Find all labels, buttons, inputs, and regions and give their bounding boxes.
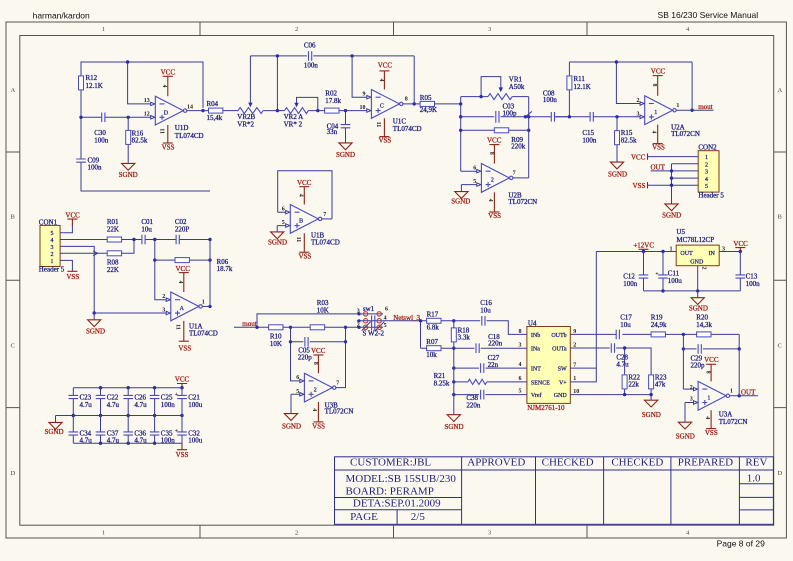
svg-text:2: 2: [295, 530, 298, 537]
svg-text:GND: GND: [554, 393, 568, 399]
svg-text:24,9K: 24,9K: [420, 106, 437, 114]
svg-text:3: 3: [51, 245, 54, 251]
wire U3A output: [730, 395, 758, 397]
junction dot U1C out: [413, 102, 416, 105]
ground SGND U1B: [268, 232, 287, 247]
power port VCC at CON2: [631, 153, 648, 161]
svg-text:2: 2: [51, 252, 54, 258]
svg-text:100n: 100n: [623, 280, 638, 288]
svg-text:100u: 100u: [188, 401, 203, 409]
svg-text:15,4k: 15,4k: [207, 114, 223, 122]
svg-text:12: 12: [144, 112, 150, 118]
svg-text:VSS: VSS: [652, 144, 665, 152]
resistor R22: [622, 373, 640, 394]
wire U2B output feedback: [513, 130, 529, 178]
wire C27 net pin4: [454, 367, 527, 369]
svg-text:10u: 10u: [620, 321, 631, 329]
svg-text:SW: SW: [558, 367, 567, 373]
wire C18 net pin3: [454, 347, 527, 349]
svg-text:2: 2: [162, 294, 165, 300]
wire VR2A to R02: [308, 110, 324, 112]
svg-text:4: 4: [384, 315, 387, 321]
svg-text:VCC: VCC: [704, 356, 719, 364]
svg-text:VSS: VSS: [66, 273, 79, 281]
svg-text:4: 4: [311, 408, 317, 411]
ground SGND U5: [689, 298, 708, 313]
svg-text:4: 4: [704, 416, 710, 419]
svg-text:D: D: [164, 110, 169, 116]
svg-text:14,3k: 14,3k: [696, 321, 712, 329]
svg-text:IN: IN: [708, 251, 715, 257]
wire U1A pin3 from SGND: [94, 313, 166, 320]
svg-text:TL072CN: TL072CN: [325, 408, 354, 416]
svg-text:4.7u: 4.7u: [107, 436, 120, 444]
svg-text:TL072CN: TL072CN: [671, 130, 700, 138]
resistor R16: [126, 117, 148, 163]
resistor R02: [325, 89, 342, 113]
svg-text:5: 5: [519, 389, 522, 395]
svg-text:220k: 220k: [511, 142, 526, 150]
connector CON2: [698, 144, 724, 200]
op-amp U1B: [282, 179, 340, 261]
junction dots CON1 stage: [93, 238, 212, 315]
svg-text:4.7u: 4.7u: [80, 401, 93, 409]
svg-text:3: 3: [705, 170, 708, 176]
svg-text:22k: 22k: [628, 381, 639, 389]
svg-text:6: 6: [519, 376, 522, 382]
svg-text:22K: 22K: [107, 226, 119, 234]
resistor R20: [696, 314, 712, 337]
wire R08 up to R01 node: [122, 240, 134, 254]
power port +12VC: [633, 241, 654, 251]
junction dot C11 bottom: [661, 289, 664, 292]
svg-text:mout: mout: [698, 103, 712, 111]
junction dots U4 right: [623, 333, 741, 398]
svg-text:1.0: 1.0: [747, 473, 761, 485]
svg-text:SGND: SGND: [676, 432, 695, 440]
op-amp U1C: [360, 62, 422, 145]
svg-text:22n: 22n: [488, 361, 499, 369]
svg-text:4: 4: [161, 85, 167, 88]
resistor R05: [420, 94, 437, 114]
svg-text:INT: INT: [531, 367, 541, 373]
svg-text:8.25k: 8.25k: [434, 380, 450, 388]
svg-text:VCC: VCC: [631, 154, 646, 162]
svg-text:1: 1: [102, 26, 105, 33]
wire CON1 pin5 to VCC: [60, 226, 72, 233]
ground SGND below CON2: [662, 204, 681, 220]
wire left bus of VR1 cell: [461, 97, 488, 172]
svg-text:TL074CD: TL074CD: [311, 239, 340, 247]
svg-text:1: 1: [102, 530, 105, 537]
capacitor C05: [298, 337, 313, 362]
svg-text:100n: 100n: [94, 137, 109, 145]
svg-text:VCC: VCC: [65, 211, 80, 219]
svg-text:A: A: [180, 306, 185, 312]
svg-text:+: +: [175, 392, 179, 398]
capacitor C09: [76, 156, 102, 171]
svg-text:+: +: [655, 272, 659, 278]
svg-text:INb: INb: [531, 333, 540, 339]
wire U4 SW row stub: [570, 367, 596, 369]
svg-text:12.1K: 12.1K: [86, 82, 103, 90]
potentiometer VR2A: [284, 97, 318, 128]
svg-text:SGND: SGND: [268, 239, 287, 247]
wire signal line C15: [556, 116, 640, 118]
svg-text:1: 1: [202, 299, 205, 305]
op-amp U2A: [637, 68, 700, 152]
resistor R19: [651, 314, 667, 337]
svg-text:U5: U5: [676, 228, 685, 236]
resistor R12: [79, 74, 103, 90]
svg-text:3: 3: [488, 26, 491, 33]
svg-text:TL072CN: TL072CN: [719, 418, 748, 426]
svg-text:1: 1: [676, 103, 679, 109]
wire left bus U4 down to ground: [453, 348, 455, 415]
wire R02 to U1C pin10: [339, 110, 367, 112]
svg-text:11: 11: [295, 237, 301, 243]
capacitor C28: [611, 343, 629, 368]
wire output column down from C09 line: [209, 240, 211, 307]
wire U1A output: [202, 305, 210, 307]
svg-text:8: 8: [519, 329, 522, 335]
svg-text:3: 3: [690, 396, 693, 402]
capacitor C34: [69, 416, 93, 445]
svg-text:D: D: [11, 470, 16, 477]
capacitor C03: [461, 103, 524, 123]
capacitor C02: [175, 218, 190, 244]
wire node to R06 row and U1A pin2: [155, 240, 210, 300]
wire CON1 pin4 line: [60, 239, 210, 241]
svg-text:SGND: SGND: [336, 151, 355, 159]
wire R05 to node: [435, 103, 461, 105]
power port VCC at CON1: [65, 211, 80, 226]
svg-text:5: 5: [51, 231, 54, 237]
svg-text:SGND: SGND: [86, 327, 105, 335]
wire U1D output: [187, 110, 203, 112]
op-amp U3B: [296, 347, 353, 430]
svg-text:A50k: A50k: [509, 83, 525, 91]
ground SGND below R16: [119, 163, 138, 179]
svg-text:1: 1: [573, 376, 576, 382]
wire U3B output feedback: [336, 387, 346, 389]
wire U3A pin3 to ground: [685, 403, 694, 423]
svg-text:OUT: OUT: [651, 163, 666, 171]
svg-text:CHECKED: CHECKED: [542, 457, 594, 469]
wire U3B pin6: [291, 342, 300, 381]
wire C29 feedback: [683, 334, 739, 389]
svg-text:100p: 100p: [503, 110, 518, 118]
svg-text:TL074CD: TL074CD: [393, 125, 422, 133]
svg-text:6: 6: [282, 207, 285, 213]
svg-text:OUTa: OUTa: [552, 347, 567, 353]
svg-text:SGND: SGND: [119, 171, 138, 179]
svg-text:22K: 22K: [107, 266, 119, 274]
svg-text:100n: 100n: [304, 61, 319, 69]
svg-text:220n: 220n: [488, 340, 503, 348]
svg-text:4.7u: 4.7u: [616, 361, 629, 369]
resistor R10: [269, 325, 283, 348]
capacitor C12: [623, 252, 648, 291]
svg-text:INa: INa: [531, 347, 540, 353]
connector CON1: [39, 219, 65, 274]
svg-text:SGND: SGND: [662, 212, 681, 220]
svg-text:TL074CD: TL074CD: [175, 132, 204, 140]
svg-text:24,9k: 24,9k: [651, 321, 667, 329]
svg-text:U4: U4: [528, 320, 537, 328]
wire U4 V+ to 12V rail: [570, 252, 596, 382]
resistor R09: [461, 128, 529, 151]
regulator U5 MC78L12CP: [670, 228, 726, 266]
ground SGND U4 inputs: [444, 415, 463, 431]
svg-text:VCC: VCC: [487, 136, 502, 144]
capacitor C30: [94, 113, 109, 145]
svg-text:Vref: Vref: [531, 392, 542, 399]
svg-text:3: 3: [637, 111, 640, 117]
svg-text:VR*2: VR*2: [237, 121, 254, 129]
svg-text:14: 14: [187, 104, 193, 110]
svg-text:10: 10: [573, 389, 579, 395]
svg-text:2: 2: [491, 178, 494, 184]
wire U2B pin6: [461, 170, 477, 172]
resistor R04: [203, 100, 238, 122]
svg-text:8: 8: [651, 84, 657, 87]
wire U5 pin3 to VCC: [719, 251, 740, 253]
svg-text:SGND: SGND: [444, 423, 463, 431]
svg-text:220P: 220P: [175, 226, 190, 234]
resistor R06: [175, 258, 233, 273]
svg-text:SGND: SGND: [44, 428, 63, 436]
svg-text:1: 1: [707, 396, 710, 402]
svg-text:100n: 100n: [582, 136, 597, 144]
svg-text:100n: 100n: [161, 401, 176, 409]
capacitor C16: [480, 299, 492, 325]
switch contact slash after C03: [525, 111, 532, 116]
junction dots U2A stage: [568, 60, 694, 118]
svg-text:100n: 100n: [746, 280, 761, 288]
svg-text:D: D: [778, 470, 783, 477]
svg-text:V+: V+: [559, 380, 567, 386]
svg-text:7: 7: [336, 380, 339, 386]
svg-text:REV: REV: [745, 457, 767, 469]
resistor R17: [427, 311, 441, 332]
svg-text:Header 5: Header 5: [39, 266, 65, 274]
ground SGND U3B: [282, 414, 301, 431]
junction dots cap bank: [72, 386, 184, 445]
svg-text:1: 1: [51, 259, 54, 265]
svg-text:1: 1: [730, 389, 733, 395]
svg-text:4: 4: [298, 194, 304, 197]
svg-text:A: A: [11, 87, 16, 94]
wire U4 GND row: [570, 395, 651, 401]
svg-text:10k: 10k: [426, 351, 437, 359]
ground SGND below R15: [608, 162, 627, 178]
svg-text:DETA:SEP.01.2009: DETA:SEP.01.2009: [353, 498, 441, 510]
resistor R07: [426, 338, 441, 359]
svg-text:8: 8: [405, 97, 408, 103]
label resistor R03: [317, 299, 329, 314]
svg-text:VSS: VSS: [488, 212, 501, 220]
svg-text:100n: 100n: [88, 164, 103, 172]
op-amp U2B: [473, 136, 537, 220]
potentiometer VR1: [481, 75, 525, 99]
power port VCC cap bank: [175, 376, 190, 388]
op-amp U1A: [162, 265, 217, 353]
svg-text:sw1: sw1: [363, 305, 375, 313]
svg-text:100n: 100n: [543, 96, 558, 104]
svg-text:4: 4: [51, 238, 54, 244]
svg-text:R04: R04: [207, 100, 219, 108]
resistor R01: [107, 218, 122, 242]
svg-text:5: 5: [296, 389, 299, 395]
wire U2A pin2: [616, 62, 640, 104]
svg-text:CON2: CON2: [698, 144, 717, 152]
svg-text:33n: 33n: [327, 128, 338, 136]
svg-text:18.7k: 18.7k: [217, 265, 233, 273]
resistor R18: [451, 321, 470, 348]
svg-text:1: 1: [705, 155, 708, 161]
svg-text:NJM2761-10: NJM2761-10: [527, 404, 565, 412]
svg-text:CHECKED: CHECKED: [611, 457, 663, 469]
svg-text:SGND: SGND: [642, 411, 661, 419]
svg-text:VSS: VSS: [312, 422, 325, 430]
capacitor C36: [123, 416, 147, 445]
svg-text:220p: 220p: [691, 361, 706, 369]
svg-text:VSS: VSS: [178, 344, 191, 352]
wire CON2 pin1 VCC: [648, 156, 699, 158]
resistor R03 body: [283, 325, 363, 330]
wire R03 top branch: [257, 314, 363, 327]
svg-text:2: 2: [637, 98, 640, 104]
svg-text:2: 2: [314, 387, 317, 393]
svg-text:6.8k: 6.8k: [427, 324, 440, 332]
svg-text:APPROVED: APPROVED: [467, 457, 525, 469]
power port VSS at CON1: [66, 271, 79, 281]
capacitor C17: [616, 314, 632, 340]
switch sw1 SW2-2: [357, 305, 421, 338]
svg-text:9: 9: [363, 92, 366, 98]
resistor R08: [107, 251, 122, 274]
svg-text:Header 5: Header 5: [698, 192, 724, 200]
junction dots R17 R18 bus: [419, 319, 456, 396]
svg-text:7: 7: [323, 212, 326, 218]
capacitor C18: [476, 333, 503, 353]
svg-text:VCC: VCC: [175, 376, 190, 384]
svg-text:100u: 100u: [188, 436, 203, 444]
wire U1C output / feedback up: [403, 56, 420, 104]
svg-text:2: 2: [357, 322, 360, 328]
svg-text:Page 8 of 29: Page 8 of 29: [717, 538, 765, 548]
junction dots CON2 bus: [670, 169, 673, 187]
svg-text:VSS: VSS: [633, 182, 646, 190]
svg-text:SENCE: SENCE: [531, 380, 550, 386]
svg-text:4: 4: [378, 79, 384, 82]
svg-text:10: 10: [360, 105, 366, 111]
capacitor C38: [466, 390, 483, 410]
ground SGND U3A: [676, 422, 695, 440]
svg-text:SGND: SGND: [282, 423, 301, 431]
capacitor C01: [141, 218, 153, 244]
resistor R11: [567, 75, 591, 91]
svg-text:BOARD: PERAMP: BOARD: PERAMP: [346, 485, 434, 497]
ground SGND cap bank: [44, 422, 63, 436]
svg-text:B: B: [11, 214, 16, 221]
ground SGND U2B: [451, 192, 470, 206]
svg-text:4.7u: 4.7u: [134, 401, 147, 409]
svg-text:10K: 10K: [317, 306, 329, 314]
svg-text:VCC: VCC: [175, 265, 190, 273]
svg-text:8: 8: [705, 371, 711, 374]
capacitor C25: [150, 388, 176, 416]
resistor R23: [649, 373, 667, 394]
wire U4 OUTb row: [570, 334, 739, 395]
svg-text:A: A: [778, 87, 783, 94]
svg-text:VCC: VCC: [378, 62, 393, 70]
svg-text:R17: R17: [427, 311, 439, 319]
svg-text:C06: C06: [304, 41, 316, 49]
svg-text:PAGE: PAGE: [350, 511, 378, 523]
ground SGND U4 gnd: [642, 400, 661, 419]
svg-text:OUTb: OUTb: [551, 333, 566, 339]
svg-text:4.7u: 4.7u: [134, 436, 147, 444]
svg-text:harman/kardon: harman/kardon: [33, 10, 90, 20]
svg-text:2: 2: [690, 385, 693, 391]
capacitor C32 polar: [175, 416, 203, 445]
svg-text:10u: 10u: [141, 226, 152, 234]
power port VSS at CON2: [633, 182, 648, 190]
capacitor C37: [96, 416, 120, 445]
svg-text:12.1K: 12.1K: [574, 83, 591, 91]
svg-text:11: 11: [159, 128, 165, 134]
svg-text:VCC: VCC: [161, 69, 176, 77]
svg-text:10K: 10K: [270, 340, 282, 348]
svg-text:Netswl_3: Netswl_3: [393, 314, 420, 322]
svg-text:3: 3: [162, 308, 165, 314]
wire Netswl branch: [421, 321, 454, 348]
svg-text:SGND: SGND: [608, 170, 627, 178]
capacitor C27: [481, 354, 500, 373]
svg-text:VSS: VSS: [176, 451, 189, 459]
junction dots mout line: [255, 326, 360, 344]
svg-text:R05: R05: [420, 94, 432, 102]
svg-text:6: 6: [385, 307, 388, 313]
svg-text:OUT: OUT: [680, 251, 693, 257]
svg-text:6: 6: [296, 375, 299, 381]
svg-text:100u: 100u: [668, 277, 683, 285]
svg-text:4: 4: [487, 199, 493, 202]
svg-text:B: B: [778, 214, 783, 221]
wire mout stub: [234, 326, 269, 328]
svg-text:VCC: VCC: [651, 68, 666, 76]
capacitor C11 polar: [655, 252, 682, 291]
svg-text:4.7u: 4.7u: [107, 401, 120, 409]
svg-text:5: 5: [705, 184, 708, 190]
junction dots U1D stage: [79, 60, 204, 119]
svg-text:11: 11: [375, 122, 381, 128]
svg-text:R11: R11: [574, 75, 586, 83]
svg-text:2/5: 2/5: [411, 511, 426, 523]
svg-text:VCC: VCC: [297, 179, 312, 187]
svg-text:82.5k: 82.5k: [132, 137, 148, 145]
capacitor C29: [691, 344, 706, 369]
svg-text:GND: GND: [690, 260, 704, 266]
junction dots VR1 cell: [459, 95, 530, 132]
svg-text:MC78L12CP: MC78L12CP: [676, 236, 714, 244]
svg-text:7: 7: [513, 171, 516, 177]
capacitor C22: [96, 388, 120, 416]
title block table: [335, 457, 774, 525]
svg-text:R12: R12: [86, 74, 98, 82]
